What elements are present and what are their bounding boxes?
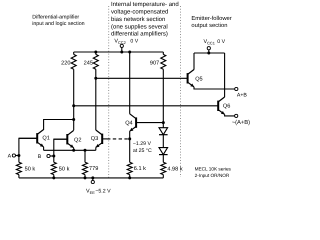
svg-text:−5.2 V: −5.2 V <box>95 188 111 194</box>
svg-text:50 k: 50 k <box>59 166 70 173</box>
wire: bottom VEE rail <box>19 177 163 179</box>
wire: 220 bottom down to Q2 collector <box>73 69 75 130</box>
svg-text:VEE: VEE <box>86 188 95 195</box>
svg-text:input and logic section: input and logic section <box>32 21 84 27</box>
wire: Q1 base lead <box>19 137 37 139</box>
svg-text:2-Input OR/NOR: 2-Input OR/NOR <box>195 173 230 178</box>
transistor Q6 <box>217 101 219 111</box>
node: 779 tap junction <box>84 149 87 152</box>
resistor R7 6.1 k <box>127 162 132 174</box>
svg-text:output section: output section <box>191 22 227 29</box>
wire: D2 to 4.98k <box>162 155 164 163</box>
transistor Q2 <box>66 134 68 144</box>
node: 245-ohm at top rail <box>94 51 97 54</box>
wire: emitter rail to 779 <box>84 150 86 162</box>
node: 50k B bottom <box>52 176 55 179</box>
wire: VCC1 left down to Q5 collector <box>193 53 195 70</box>
power terminal VEE -5.2 V <box>92 178 94 181</box>
node A <box>17 154 20 157</box>
transistor Q4 (mirrored) <box>135 117 137 127</box>
svg-text:4.98 k: 4.98 k <box>167 166 182 173</box>
wire: Q4 collector from top rail <box>129 52 131 114</box>
resistor R1 220 <box>71 54 76 69</box>
node B <box>52 155 55 158</box>
svg-text:VCC2: VCC2 <box>114 38 125 45</box>
transistor Q1 <box>36 133 38 143</box>
svg-text:Internal temperature- and: Internal temperature- and <box>111 1 179 8</box>
svg-text:Emitter-follower: Emitter-follower <box>191 15 231 22</box>
resistor R5 50 k (input B pulldown) <box>51 162 56 174</box>
wire: common emitter rail Q1-Q3 <box>44 149 96 151</box>
wire: 220 top to rail <box>73 52 75 54</box>
wire: Q1 emitter to common emitter rail <box>43 147 45 150</box>
resistor R4 50 k (input A pulldown) <box>16 162 21 174</box>
wire: Q6 base line from 220 node <box>74 105 219 107</box>
svg-text:Q5: Q5 <box>195 76 202 82</box>
wire: Q2 base lead <box>54 138 68 140</box>
svg-text:0 V: 0 V <box>217 39 225 45</box>
resistor R6 779 <box>83 162 88 174</box>
svg-text:907: 907 <box>150 61 159 67</box>
wire: A to Q1 base <box>19 138 37 155</box>
wire: Q3 emitter down <box>95 147 97 150</box>
resistor R2 245 <box>93 54 98 69</box>
svg-text:Q3: Q3 <box>91 136 98 142</box>
svg-text:A: A <box>8 153 12 159</box>
node: NOR-side collector to Q6 base <box>72 104 75 107</box>
wire: VCC1 right down to Q6 collector <box>224 53 226 97</box>
wire: VCC1 rail to Q5/Q6 collectors <box>194 52 225 54</box>
wire: bias node down to diodes <box>162 123 164 128</box>
node: VCC2 tap <box>120 51 123 54</box>
wire: Q5 emitter to OR output <box>194 87 235 89</box>
svg-text:VCC1: VCC1 <box>204 39 215 46</box>
node: Q4 collector at top rail <box>128 51 131 54</box>
node: branch to Q1 collector <box>72 118 75 121</box>
svg-text:A+B: A+B <box>237 93 247 99</box>
wire: 245 top to rail <box>95 52 97 54</box>
wire: Q6 emitter to NOR output <box>225 114 235 116</box>
output terminal ~(A+B) (NOR) <box>235 114 238 117</box>
svg-text:MECL 10K series: MECL 10K series <box>195 167 232 172</box>
wire: VCC2 top rail <box>74 51 164 53</box>
section separator: bias network / emitter-follower <box>180 6 182 177</box>
resistor R8 4.98 k <box>161 162 166 174</box>
wire: B to Q2 base <box>54 139 68 156</box>
svg-text:779: 779 <box>89 166 98 172</box>
node: VBB node (dashed line to Q3 base) <box>128 137 131 140</box>
svg-text:220: 220 <box>61 61 70 67</box>
svg-text:Q2: Q2 <box>74 138 81 144</box>
svg-text:0 V: 0 V <box>130 38 138 44</box>
transistor Q3 (mirrored) <box>101 134 103 144</box>
svg-text:at 25 °C: at 25 °C <box>133 148 152 154</box>
wire: A node down to 50k <box>18 156 20 163</box>
svg-text:6.1 k: 6.1 k <box>134 165 146 172</box>
svg-text:(one supplies several: (one supplies several <box>111 23 168 30</box>
node: 6.1k bottom <box>128 176 131 179</box>
wire: Q5 base line from 245 node <box>96 77 188 79</box>
wire: Q2 emitter down <box>73 148 75 151</box>
diode D1 <box>159 128 168 135</box>
wire: Q4 emitter down (VBB) <box>129 131 131 162</box>
wire: Q4 base lead to bias node <box>136 122 163 124</box>
node: VCC1 tap <box>207 52 210 55</box>
svg-text:~(A+B): ~(A+B) <box>232 119 250 126</box>
svg-text:voltage-compensated: voltage-compensated <box>111 8 168 15</box>
node: 779 bottom <box>84 176 87 179</box>
wire: B node down to 50k <box>53 156 55 162</box>
svg-text:Q6: Q6 <box>223 103 230 109</box>
section separator: diff-amp / bias network <box>108 6 110 178</box>
svg-text:50 k: 50 k <box>25 165 36 172</box>
svg-text:245: 245 <box>84 61 93 67</box>
node: OR-side collector to Q5 base <box>94 77 97 80</box>
svg-text:B: B <box>38 154 42 160</box>
transistor Q5 <box>187 73 189 83</box>
node: bias divider node (907/diodes/Q4 base) <box>162 121 165 124</box>
svg-text:bias network section: bias network section <box>111 16 165 23</box>
svg-text:Q1: Q1 <box>42 135 49 141</box>
diode D2 <box>159 148 168 155</box>
resistor R3 907 <box>161 54 166 69</box>
svg-text:differential amplifiers): differential amplifiers) <box>111 31 168 38</box>
svg-text:Differential-amplifier: Differential-amplifier <box>32 15 79 21</box>
wire: D1 to D2 <box>162 135 164 148</box>
wire: Q3 base dashed to VBB node <box>102 138 107 140</box>
wire: branch from 220 line to Q1 collector <box>44 120 74 130</box>
wire: rail corner to 907 and down to bias node <box>162 52 164 54</box>
svg-text:−1.29 V: −1.29 V <box>133 141 152 147</box>
output terminal A+B (OR) <box>235 87 238 90</box>
node: VEE tap <box>91 176 94 179</box>
wire: 245 bottom down to Q3 collector <box>95 69 97 130</box>
node: Q2 emitter junction <box>72 149 75 152</box>
svg-text:Q4: Q4 <box>125 121 132 127</box>
